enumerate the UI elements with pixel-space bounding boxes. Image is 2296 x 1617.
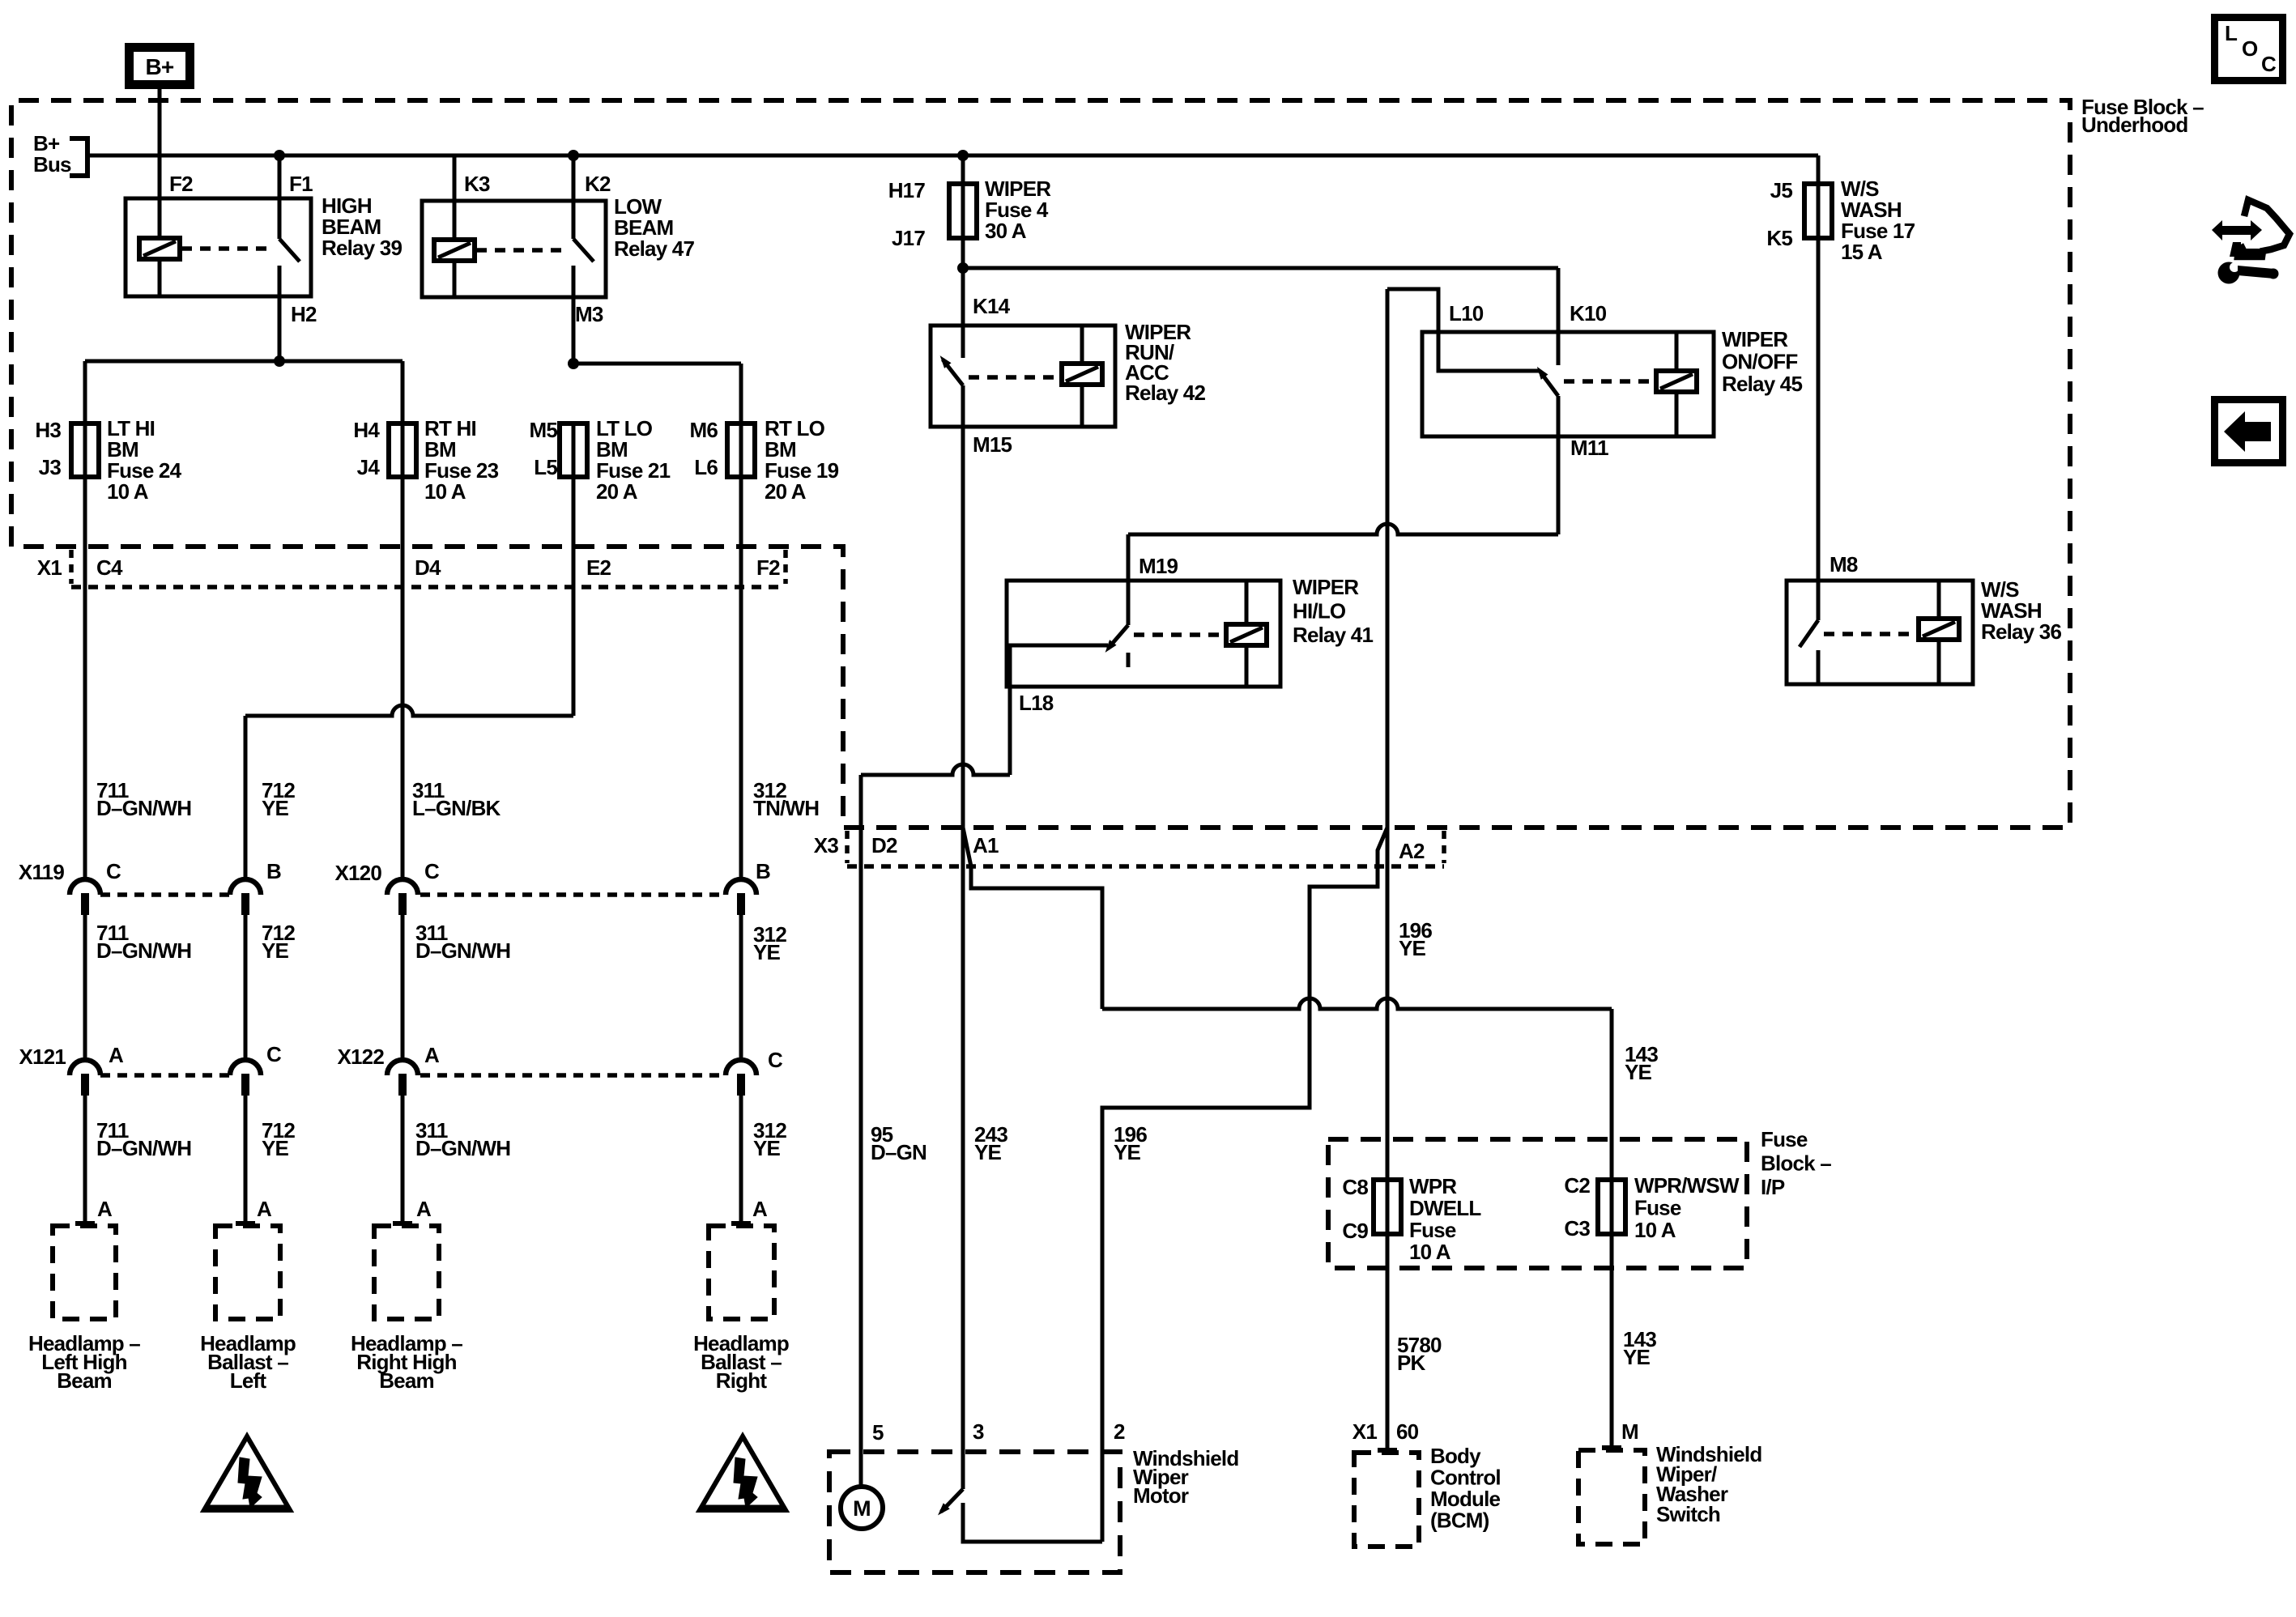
- svg-text:X122: X122: [337, 1045, 384, 1069]
- headlamp left high beam box: [53, 1226, 116, 1319]
- relay 47 LOW BEAM box: [422, 201, 606, 297]
- svg-text:Motor: Motor: [1133, 1483, 1189, 1508]
- svg-text:M6: M6: [689, 418, 718, 442]
- svg-text:WPR/WSW: WPR/WSW: [1634, 1173, 1740, 1198]
- svg-text:C: C: [2261, 52, 2277, 76]
- svg-text:C8: C8: [1342, 1175, 1368, 1199]
- svg-text:X3: X3: [814, 833, 839, 857]
- svg-text:M8: M8: [1830, 552, 1858, 577]
- svg-text:O: O: [2242, 36, 2258, 61]
- svg-text:B: B: [756, 859, 770, 883]
- connector X122: [420, 1073, 726, 1078]
- wire A1 branch to 143 YE: [963, 828, 1102, 1009]
- svg-text:(BCM): (BCM): [1430, 1508, 1489, 1533]
- svg-text:D–GN: D–GN: [871, 1140, 926, 1164]
- svg-text:D2: D2: [871, 833, 897, 857]
- svg-text:A1: A1: [973, 833, 999, 857]
- wire 312 lower: [739, 1096, 743, 1223]
- relay 45 switch: [1540, 371, 1558, 396]
- svg-text:H3: H3: [35, 418, 61, 442]
- svg-text:YE: YE: [1623, 1345, 1651, 1369]
- fuse WPR/WSW 10A: [1610, 1180, 1614, 1234]
- svg-text:M11: M11: [1570, 436, 1608, 460]
- wire 311 lower: [401, 1096, 405, 1223]
- B+ bus wire: [87, 154, 1818, 158]
- svg-text:A: A: [257, 1197, 272, 1221]
- svg-text:A: A: [416, 1197, 432, 1221]
- svg-text:A: A: [97, 1197, 113, 1221]
- connector X3 row: [847, 864, 1444, 869]
- svg-text:C2: C2: [1564, 1173, 1590, 1198]
- windshield wiper washer switch box: [1578, 1450, 1645, 1544]
- svg-text:M3: M3: [575, 302, 603, 326]
- svg-text:C: C: [424, 859, 440, 883]
- svg-text:Switch: Switch: [1656, 1502, 1720, 1526]
- svg-text:J17: J17: [892, 226, 925, 250]
- svg-text:YE: YE: [262, 938, 289, 963]
- wire fuse4 to K14 and K10 branch: [961, 238, 965, 358]
- relay 45 WIPER ON/OFF box: [1422, 332, 1714, 436]
- svg-text:10 A: 10 A: [424, 479, 466, 504]
- svg-text:F2: F2: [169, 172, 193, 196]
- fuse 17 W/S WASH 15A: [1817, 184, 1821, 238]
- wire L18 pivot feed: [1010, 645, 1108, 775]
- junction K2: [568, 150, 579, 161]
- relay 42 switch: [943, 360, 963, 385]
- svg-text:Bus: Bus: [33, 152, 71, 177]
- relay 45 coil: [1675, 332, 1679, 371]
- relay 41 WIPER HI/LO box: [1007, 581, 1280, 687]
- svg-text:YE: YE: [753, 940, 781, 964]
- wire B+ to bus: [158, 89, 162, 155]
- svg-text:L5: L5: [534, 455, 557, 479]
- connector X1 row: [71, 585, 786, 589]
- wire 712 lower: [244, 1096, 248, 1223]
- wire M15 to A1: [961, 427, 965, 828]
- svg-text:20 A: 20 A: [596, 479, 638, 504]
- svg-text:C4: C4: [96, 555, 123, 580]
- svg-text:E2: E2: [586, 555, 611, 580]
- svg-text:10 A: 10 A: [1634, 1218, 1676, 1242]
- connector X120: [420, 892, 726, 897]
- svg-text:X1: X1: [1352, 1419, 1378, 1444]
- wire 711 lower: [83, 1096, 87, 1223]
- junction F1: [274, 150, 285, 161]
- svg-text:3: 3: [973, 1419, 984, 1444]
- svg-text:A: A: [752, 1197, 768, 1221]
- windshield wiper motor box: [829, 1452, 1120, 1572]
- fuse 19 RT LO BM: [739, 423, 743, 477]
- svg-text:L: L: [2225, 21, 2238, 45]
- svg-text:B+: B+: [146, 54, 174, 79]
- svg-text:Underhood: Underhood: [2081, 113, 2187, 137]
- svg-text:Fuse: Fuse: [1761, 1127, 1808, 1151]
- svg-text:10 A: 10 A: [1409, 1240, 1451, 1264]
- svg-text:X119: X119: [19, 860, 64, 884]
- svg-text:Fuse: Fuse: [1634, 1196, 1681, 1220]
- wire A1 to motor pin 3 243 YE: [961, 828, 965, 1489]
- svg-text:X120: X120: [334, 861, 381, 885]
- svg-text:K2: K2: [585, 172, 611, 196]
- svg-text:C: C: [768, 1048, 783, 1072]
- svg-text:D–GN/WH: D–GN/WH: [415, 938, 510, 963]
- wire 312 upper: [739, 477, 743, 879]
- svg-text:F1: F1: [289, 172, 313, 196]
- svg-text:K3: K3: [464, 172, 490, 196]
- fuse 21 LT LO BM: [572, 423, 576, 477]
- wire fuse 17 to M8: [1817, 238, 1821, 620]
- motor M circle: [841, 1487, 883, 1529]
- B+ terminal: [130, 48, 190, 85]
- svg-text:A: A: [109, 1043, 124, 1067]
- svg-text:B: B: [266, 859, 281, 883]
- svg-text:J5: J5: [1770, 178, 1793, 202]
- wire L18 to D2: [861, 764, 1010, 775]
- fuse block I/P dashed border: [1328, 1139, 1747, 1268]
- relay 41 coil-switch dashed link: [1134, 632, 1225, 637]
- fuse 23 RT HI BM: [401, 423, 405, 477]
- svg-text:K5: K5: [1766, 226, 1792, 250]
- wire H2 node: [278, 296, 282, 361]
- svg-text:J3: J3: [39, 455, 62, 479]
- relay 42 coil-switch dashed link: [969, 375, 1060, 380]
- wire A2 to motor pin 2: [1102, 828, 1387, 1542]
- headlamp ballast left box: [215, 1226, 280, 1319]
- svg-text:60: 60: [1396, 1419, 1419, 1444]
- svg-text:L6: L6: [694, 455, 718, 479]
- wire K3 coil feed: [453, 155, 457, 240]
- svg-text:Relay 41: Relay 41: [1293, 623, 1373, 647]
- wire L10 to A2 196 YE: [1386, 289, 1390, 828]
- warning triangle at x=305: [204, 1436, 290, 1510]
- svg-text:L–GN/BK: L–GN/BK: [412, 796, 501, 820]
- svg-text:15 A: 15 A: [1841, 240, 1883, 264]
- svg-text:M5: M5: [529, 418, 557, 442]
- relay 45 coil-switch dashed link: [1564, 379, 1655, 384]
- relay 42 WIPER RUN/ACC box: [931, 326, 1115, 427]
- relay 47 coil: [434, 240, 475, 261]
- svg-text:WIPER: WIPER: [1293, 575, 1359, 599]
- svg-text:Body: Body: [1430, 1444, 1481, 1468]
- wire bus to fuse 4: [961, 155, 965, 184]
- svg-text:D–GN/WH: D–GN/WH: [96, 1136, 191, 1160]
- svg-text:YE: YE: [974, 1140, 1002, 1164]
- svg-text:Block –: Block –: [1761, 1151, 1831, 1176]
- svg-text:DWELL: DWELL: [1409, 1196, 1481, 1220]
- fuse WPR DWELL 10A: [1386, 1180, 1390, 1234]
- relay 36 switch: [1800, 620, 1818, 647]
- fuse 24 LT HI BM: [83, 423, 87, 477]
- svg-text:20 A: 20 A: [765, 479, 807, 504]
- svg-text:D–GN/WH: D–GN/WH: [96, 796, 191, 820]
- connector X119: [100, 892, 230, 897]
- svg-text:Module: Module: [1430, 1487, 1501, 1511]
- fuse block underhood dashed border: [11, 100, 2070, 828]
- svg-text:F2: F2: [756, 555, 780, 580]
- wire L10 feed: [1387, 289, 1540, 371]
- svg-text:C: C: [266, 1042, 282, 1066]
- wire 711 mid: [83, 915, 87, 1060]
- LOC reference box: [2215, 18, 2283, 81]
- svg-text:Relay 42: Relay 42: [1125, 381, 1205, 405]
- relay 41 coil: [1245, 581, 1249, 624]
- B+ Bus bracket: [70, 138, 87, 176]
- body control module box: [1354, 1453, 1419, 1547]
- svg-text:C3: C3: [1564, 1216, 1590, 1240]
- svg-text:YE: YE: [262, 1136, 289, 1160]
- wire M3 node: [572, 297, 576, 364]
- svg-text:Relay 45: Relay 45: [1722, 372, 1802, 396]
- svg-text:M: M: [853, 1496, 871, 1521]
- svg-text:H4: H4: [353, 418, 380, 442]
- svg-text:I/P: I/P: [1761, 1175, 1785, 1199]
- relay 39 coil: [139, 238, 180, 259]
- wire 143 YE to switch: [1610, 1234, 1614, 1448]
- svg-text:Relay 36: Relay 36: [1981, 619, 2061, 644]
- svg-text:C: C: [106, 859, 121, 883]
- svg-text:Left: Left: [230, 1368, 267, 1393]
- svg-text:PK: PK: [1397, 1351, 1426, 1375]
- svg-text:Beam: Beam: [57, 1368, 112, 1393]
- headlamp ballast right box: [709, 1226, 774, 1319]
- svg-text:M: M: [1621, 1419, 1638, 1444]
- relay 39 coil-switch dashed link: [181, 246, 272, 251]
- wire 5780 PK to BCM: [1386, 1234, 1390, 1450]
- svg-text:J4: J4: [357, 455, 381, 479]
- svg-text:D–GN/WH: D–GN/WH: [96, 938, 191, 963]
- svg-text:ON/OFF: ON/OFF: [1722, 350, 1797, 374]
- svg-text:TN/WH: TN/WH: [753, 796, 819, 820]
- wire D2 to motor pin 5 95 D-GN: [859, 828, 863, 1487]
- svg-text:M19: M19: [1139, 554, 1178, 578]
- svg-text:WPR: WPR: [1409, 1174, 1457, 1198]
- motor park switch: [941, 1489, 963, 1512]
- svg-text:YE: YE: [1625, 1060, 1652, 1084]
- wire A2 to WPR DWELL fuse: [1386, 828, 1390, 1180]
- svg-text:Right: Right: [716, 1368, 768, 1393]
- svg-text:5: 5: [872, 1420, 884, 1445]
- svg-text:K14: K14: [973, 294, 1011, 318]
- svg-text:Beam: Beam: [379, 1368, 434, 1393]
- wire 711 upper: [83, 477, 87, 879]
- relay 41 switch: [1108, 625, 1128, 649]
- svg-text:10 A: 10 A: [107, 479, 149, 504]
- relay 39 switch: [278, 155, 282, 239]
- relay 47 coil-switch dashed link: [476, 248, 567, 253]
- wire 311 upper: [401, 477, 405, 879]
- svg-text:L10: L10: [1449, 301, 1484, 326]
- svg-text:YE: YE: [1399, 936, 1426, 960]
- svg-text:Control: Control: [1430, 1466, 1501, 1490]
- relay 36 coil: [1937, 581, 1941, 619]
- relay 42 coil: [1080, 326, 1084, 364]
- wire F2 coil feed: [158, 89, 162, 240]
- junction H17: [957, 150, 969, 161]
- wire 312 mid: [739, 915, 743, 1060]
- svg-text:M15: M15: [973, 432, 1012, 457]
- svg-text:Relay 39: Relay 39: [322, 236, 402, 260]
- svg-text:YE: YE: [753, 1136, 781, 1160]
- svg-text:H2: H2: [291, 302, 317, 326]
- warning triangle at x=917: [700, 1436, 786, 1510]
- svg-text:D–GN/WH: D–GN/WH: [415, 1136, 510, 1160]
- fuse 4 WIPER 30A: [961, 184, 965, 238]
- svg-text:Fuse: Fuse: [1409, 1218, 1456, 1242]
- svg-text:A: A: [424, 1043, 440, 1067]
- wire bus to fuse 17: [1817, 155, 1821, 184]
- svg-text:L18: L18: [1019, 691, 1054, 715]
- svg-text:30 A: 30 A: [985, 219, 1027, 243]
- svg-text:D4: D4: [415, 555, 441, 580]
- svg-text:A2: A2: [1399, 839, 1425, 863]
- svg-text:YE: YE: [262, 796, 289, 820]
- svg-text:WIPER: WIPER: [1722, 327, 1788, 351]
- left arrow navigation box: [2215, 400, 2283, 463]
- svg-text:Relay 47: Relay 47: [614, 236, 694, 261]
- car service icon: [2212, 220, 2262, 240]
- wire 311 mid: [401, 915, 405, 1060]
- svg-text:HI/LO: HI/LO: [1293, 599, 1346, 623]
- svg-text:K10: K10: [1570, 301, 1607, 326]
- svg-text:2: 2: [1114, 1419, 1125, 1444]
- relay 39 HIGH BEAM box: [126, 198, 311, 296]
- svg-text:C9: C9: [1342, 1219, 1368, 1243]
- relay 47 switch: [572, 155, 576, 239]
- wire M11 to M19: [1557, 436, 1561, 534]
- svg-text:YE: YE: [1114, 1140, 1141, 1164]
- wire 712 mid: [244, 915, 248, 1060]
- connector X121: [100, 1073, 230, 1078]
- headlamp right high beam box: [374, 1226, 439, 1319]
- svg-text:X121: X121: [19, 1045, 66, 1069]
- svg-text:X1: X1: [37, 555, 62, 580]
- relay 36 coil-switch dashed link: [1824, 632, 1916, 636]
- svg-text:H17: H17: [888, 178, 926, 202]
- relay 36 W/S WASH box: [1787, 581, 1973, 684]
- wire E2 to 712 branch: [572, 477, 576, 716]
